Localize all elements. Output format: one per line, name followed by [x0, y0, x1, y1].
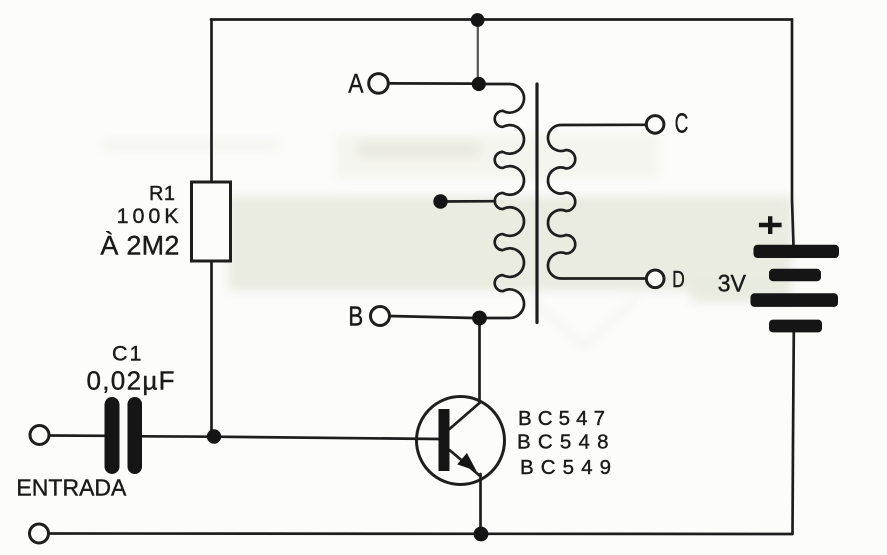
- svg-text:A: A: [348, 68, 363, 98]
- svg-text:D: D: [672, 266, 685, 292]
- svg-text:0,02µF: 0,02µF: [87, 365, 175, 395]
- svg-text:100K: 100K: [117, 204, 180, 228]
- svg-text:À 2M2: À 2M2: [100, 231, 179, 261]
- svg-text:C: C: [675, 108, 689, 139]
- svg-text:C1: C1: [112, 341, 142, 365]
- svg-text:B: B: [348, 300, 363, 331]
- svg-text:3V: 3V: [718, 271, 747, 298]
- svg-text:R1: R1: [149, 183, 175, 205]
- svg-text:ENTRADA: ENTRADA: [16, 474, 127, 500]
